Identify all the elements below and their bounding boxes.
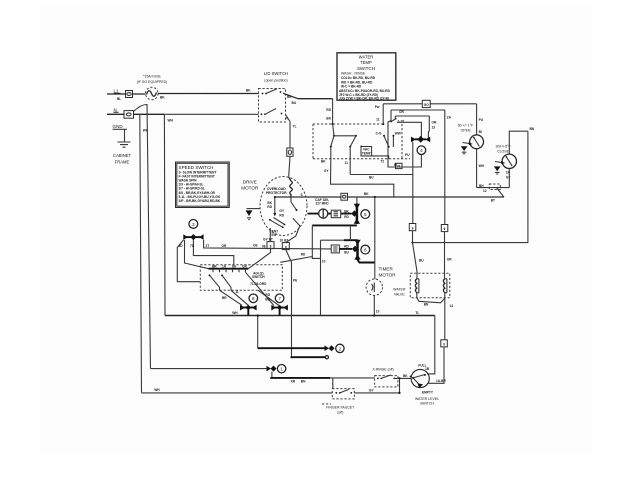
lid switch S1 dashed body: [259, 89, 286, 123]
water valve dashed body: [410, 273, 450, 298]
wire speed switch to contact 7: [246, 272, 280, 305]
paper noise overlay: [86, 44, 546, 416]
node circle 7: [275, 294, 284, 303]
timer contact 4: [411, 136, 430, 143]
wire nested link left: [312, 225, 325, 315]
wire junction riser: [375, 104, 383, 124]
timer motor TM dashed body: [366, 279, 382, 295]
vac temp sub-box: [361, 147, 372, 157]
motor interior right blade: [291, 193, 303, 211]
wire right-side rail: [413, 131, 528, 242]
wire L1 lead: [107, 94, 146, 101]
wire connector 8L to speed switch: [248, 249, 270, 269]
speed switch pin labels: [212, 264, 247, 268]
wire contact2 lower heavy run: [290, 356, 328, 359]
wire top nest line 3: [395, 116, 437, 138]
water level switch label: [415, 397, 439, 406]
wire OR run to switch6: [204, 240, 332, 249]
lid switch upper pole: [262, 89, 298, 99]
wire circle 4 return loop: [388, 121, 421, 168]
connector N terminal: [124, 111, 134, 119]
ground cabinet frame: [113, 129, 132, 164]
thermostat 100F label: [495, 145, 511, 154]
thermostat 60F label: [458, 124, 474, 133]
wire contact3 center lead: [190, 240, 234, 265]
wire contact2 heavy run: [258, 347, 325, 349]
valve solenoid L1 coil: [415, 273, 419, 293]
drive motor label: [241, 180, 259, 191]
node circle 6: [361, 245, 370, 254]
wire PE riser: [286, 250, 297, 358]
wire top nest line 2: [391, 110, 452, 121]
protector blade: [491, 170, 512, 202]
x-rinse label: [372, 367, 393, 371]
node circle 5: [361, 210, 370, 219]
water valve label: [393, 287, 406, 296]
wire TL rail to level switch: [415, 311, 434, 374]
timer contact 2: [325, 345, 335, 351]
node timer feed junction: [376, 118, 384, 126]
finger faucet dashed body: [332, 389, 354, 399]
node N: [114, 107, 119, 112]
connector 6 inline top: [441, 110, 448, 232]
node GND: [113, 124, 128, 129]
wire main loop left edge: [164, 114, 173, 315]
wire valve BU feed: [413, 243, 425, 273]
wire WH bottom run: [142, 388, 333, 393]
lid switch lower pole: [261, 95, 293, 122]
wire T2 branch: [350, 147, 413, 180]
wire sw5 lower heavy run: [312, 224, 357, 226]
node circle 4: [417, 146, 426, 155]
timer contact 7 lower: [232, 305, 288, 316]
wire connector 9 to valve junction: [411, 231, 413, 244]
valve solenoid L2 coil: [443, 279, 447, 293]
timer contact 1: [267, 366, 277, 372]
centrifugal switch blades: [269, 218, 286, 238]
connector L1 terminal: [126, 91, 133, 98]
wire YL to motor top: [289, 156, 290, 177]
wire valve bottoms join: [417, 293, 453, 340]
timer switch 6 contact: [344, 240, 361, 260]
wire bottom rail to contact2: [257, 314, 259, 348]
wire neutral riser WH: [140, 114, 149, 392]
thermostat T1 probe arrow: [461, 142, 473, 154]
water temp switch dashed enclosure: [313, 124, 410, 159]
speed switch label: [250, 271, 267, 286]
node circle 3: [189, 220, 198, 229]
wire x-rinse to level switch: [394, 374, 411, 380]
wire GY branch to motor: [331, 147, 394, 197]
connector inline cap-sw5: [331, 210, 341, 218]
node circle 1: [277, 365, 285, 373]
wire timer motor to bottom rail: [373, 295, 379, 316]
labels under temp switch box: [321, 159, 384, 173]
wire thermostat2 top: [509, 127, 535, 154]
label BK after fuse: [160, 96, 165, 100]
wire or heavy link: [339, 248, 352, 250]
wire contact1 lower run: [270, 372, 374, 384]
connector inline or-sw6: [331, 245, 339, 253]
thermostat T2 probe arrow: [494, 161, 505, 174]
connector inline YL: [287, 148, 293, 156]
wire RD diagonal link: [280, 253, 312, 263]
wire main motor line: [275, 192, 504, 198]
wire OR rail to valve: [445, 232, 453, 279]
motor interior pin dots: [274, 196, 284, 228]
timer motor label: [379, 267, 397, 278]
thermostat T2: [502, 154, 516, 188]
wire bottom rail N-return: [165, 315, 435, 317]
speed switch pin bar: [209, 269, 249, 273]
speed switch legend box: [176, 162, 230, 208]
speed switch blades: [209, 274, 231, 290]
ground motor frame: [246, 209, 261, 220]
x-rinse switch dashed body: [375, 375, 398, 387]
timer contact 8 lower: [240, 305, 257, 316]
wire sw6 bottom to timer rail: [358, 260, 375, 263]
wire faucet left riser: [332, 378, 334, 389]
motor overload winding: [289, 177, 293, 197]
wire N lead: [107, 113, 259, 115]
wire L1 to lid switch: [158, 89, 258, 94]
node L1: [114, 88, 121, 93]
wire valve return to level switch: [428, 347, 446, 383]
water temp switch contacts left: [330, 135, 363, 148]
wire YL motor feed: [290, 122, 297, 149]
wire sub-box bottom link: [362, 155, 389, 159]
motor protector dashed box: [489, 184, 500, 190]
fuse F1 (15A, dashed): [137, 75, 168, 100]
wire junction to contact link: [333, 124, 334, 136]
connector 8L inline: [267, 242, 274, 249]
wire thermostat link bar: [477, 184, 510, 193]
wire thermostat1 bottom: [477, 149, 485, 188]
timer contact 3: [183, 234, 203, 240]
connector 0 inline lower: [441, 340, 448, 347]
water temp switch contacts right: [376, 119, 404, 148]
wire rail to connector 9: [405, 142, 413, 224]
wire timer rail: [374, 197, 376, 279]
node circle 8: [249, 294, 258, 303]
wire contact1 feed run: [151, 368, 267, 370]
water temp switch legend box: [337, 53, 396, 101]
wire ground riser: [134, 104, 151, 368]
wire top nest line 1: [383, 103, 476, 105]
timer cam dashed line: [313, 123, 382, 125]
thermostat T1: [470, 135, 484, 149]
motor start winding lead: [267, 197, 276, 216]
capacitor C1: [319, 209, 328, 218]
overload protector label: [266, 187, 287, 195]
wire thermostat1 top feed: [477, 104, 484, 135]
wire contact4 center feed: [397, 122, 421, 137]
wire lid switch to RD corner: [292, 99, 333, 105]
node circle 2: [336, 344, 344, 352]
connector 9 inline: [409, 224, 416, 231]
speed switch dashed body: [200, 265, 282, 291]
water level switch body: [411, 364, 434, 395]
wire speed switch to contact 8: [220, 290, 249, 305]
capacitor label: [315, 198, 329, 206]
wire motor left exit: [263, 228, 273, 242]
timer switch 5 contact: [344, 197, 360, 224]
finger faucet label: [322, 404, 355, 414]
label OR mid run: [262, 244, 266, 248]
lid switch (open position) label: [264, 71, 288, 83]
connector GO inline: [422, 100, 430, 107]
connector M inline: [396, 163, 403, 168]
wire RD riser to timer line: [326, 99, 333, 125]
connector 8R inline: [280, 238, 290, 249]
connector inline on motor line: [341, 193, 348, 200]
wire capacitor run line: [308, 213, 352, 215]
wire sw6 upper run: [321, 225, 358, 240]
water level switch top lead dots: [410, 376, 412, 378]
wire contact3 left leads: [177, 240, 208, 282]
drive motor M1 dashed body: [260, 177, 307, 236]
wire faucet GY run: [354, 378, 400, 394]
wire motor right exit: [279, 209, 299, 243]
